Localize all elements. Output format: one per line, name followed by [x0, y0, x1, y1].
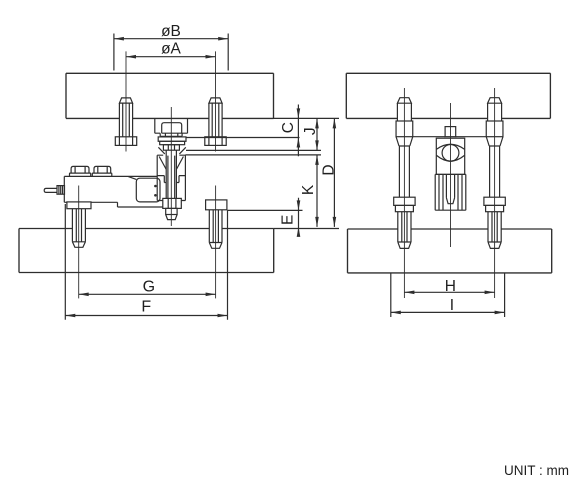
pin block: [445, 127, 456, 137]
lower cup (side view): [435, 174, 466, 210]
rocker pivot: [437, 144, 465, 161]
svg-text:C: C: [280, 122, 297, 133]
unit note: [504, 463, 569, 478]
svg-text:J: J: [302, 127, 319, 135]
locking nut lower: [163, 198, 182, 208]
centerline of right stud: [494, 88, 496, 298]
centerline of bolt M3: [78, 186, 80, 299]
dimension oB: [114, 23, 228, 71]
dimension C: [186, 105, 300, 157]
svg-text:I: I: [450, 297, 454, 314]
locking nut upper: [163, 145, 179, 151]
bottom-right bolt M4: [206, 200, 227, 248]
top-right bolt M2: [205, 98, 226, 146]
load rod: [166, 150, 176, 198]
dimension F: [65, 204, 227, 320]
centerline of left stud: [403, 88, 405, 298]
dimension J: [186, 118, 321, 150]
top plate (front view): [66, 73, 274, 118]
centerline of load rod: [170, 107, 172, 226]
dimension oA: [126, 41, 216, 59]
sealing cap 2: [92, 166, 112, 176]
svg-text:K: K: [300, 184, 317, 195]
sealing cap 1: [70, 166, 91, 176]
centerline of bolt M2: [215, 51, 217, 151]
spacer line under plate: [413, 136, 487, 138]
left stud (side view): [394, 98, 415, 249]
dimension E: [228, 198, 303, 237]
dimension K: [185, 155, 321, 227]
svg-text:UNIT : mm: UNIT : mm: [504, 463, 569, 478]
rocker housing: [436, 138, 464, 174]
centerline of rocker: [450, 103, 452, 247]
cone seat: [158, 147, 185, 154]
load cell body: [64, 155, 185, 207]
svg-text:F: F: [141, 299, 151, 316]
dimension D: [321, 118, 338, 226]
cable gland: [44, 186, 64, 195]
base plate (front view): [19, 229, 274, 273]
svg-text:øA: øA: [161, 41, 181, 58]
right stud (side view): [484, 98, 505, 249]
top mounting bracket: [155, 118, 188, 136]
top plate (side view): [346, 73, 550, 118]
dimension G: [79, 278, 216, 296]
dimension I: [391, 274, 505, 318]
name plate: [136, 178, 160, 202]
extension line, underside of top plate: [274, 117, 340, 119]
extension line, top of base plate: [274, 228, 339, 230]
base plate (side view): [348, 229, 552, 273]
upper washer: [158, 137, 186, 141]
top-left bolt M1: [115, 98, 136, 146]
rod end: [166, 208, 177, 219]
svg-text:G: G: [143, 278, 155, 295]
centerline of bolt M1: [125, 51, 127, 151]
svg-text:H: H: [445, 278, 456, 295]
svg-text:D: D: [321, 164, 338, 175]
dimension H: [404, 278, 494, 295]
lower washer: [160, 141, 185, 144]
centerline of bolt M4: [215, 186, 217, 299]
bottom-left bolt M3: [67, 202, 91, 247]
load cup: [157, 155, 185, 182]
svg-text:øB: øB: [161, 23, 181, 40]
svg-text:E: E: [280, 215, 297, 225]
